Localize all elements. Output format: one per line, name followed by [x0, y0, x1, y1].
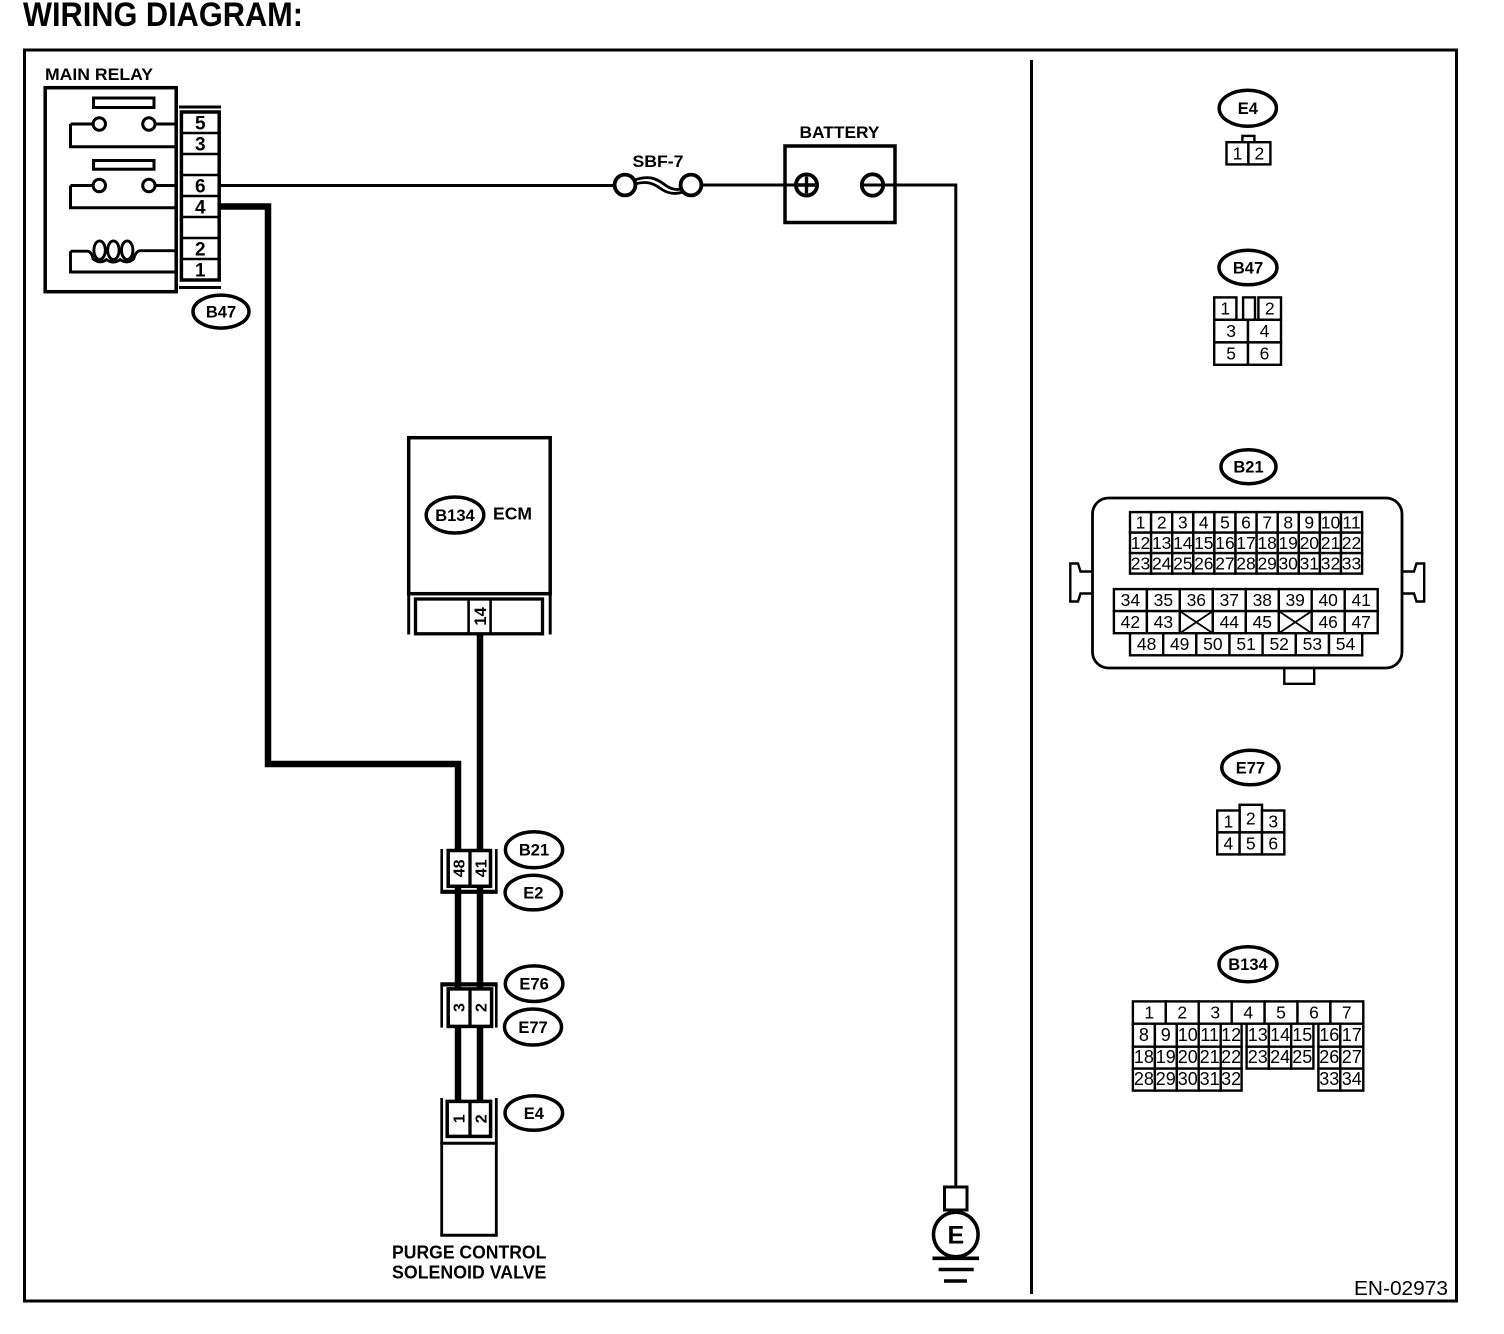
svg-text:22: 22 — [1342, 533, 1361, 553]
connector view B134 pin 31 — [1199, 1069, 1221, 1091]
connector view B21 pin 49 — [1163, 633, 1196, 655]
connector view B134 pin 11 — [1199, 1024, 1221, 1047]
connector view B21 blocked cavity — [1180, 611, 1213, 633]
svg-text:14: 14 — [1173, 533, 1193, 553]
svg-text:17: 17 — [1342, 1025, 1362, 1045]
connector view B21 pin 33 — [1341, 553, 1362, 574]
connector view B21 pin 42 — [1114, 611, 1147, 633]
connector E4 pin box (1 | 2) — [447, 1101, 490, 1136]
wire E76/E77 to E4 pin 2 — [477, 1026, 484, 1105]
ground connector square — [945, 1187, 968, 1210]
connector view B134 pin 26 — [1318, 1047, 1340, 1069]
svg-text:26: 26 — [1194, 553, 1213, 573]
svg-text:1: 1 — [1136, 512, 1146, 532]
connector label ellipse E4 — [505, 1096, 563, 1131]
connector view B21 pin 28 — [1236, 553, 1257, 574]
svg-text:2: 2 — [1265, 299, 1275, 319]
ECM pin row box — [416, 599, 543, 634]
svg-text:14: 14 — [1270, 1025, 1290, 1045]
ECM side extensions — [407, 595, 410, 635]
wire relay pin 6 to fuse SBF-7 — [220, 184, 614, 187]
connector view B134 pin 14 — [1269, 1024, 1291, 1047]
connector view B21 pin 44 — [1213, 611, 1246, 633]
svg-text:19: 19 — [1278, 533, 1297, 553]
svg-text:B134: B134 — [1228, 956, 1268, 974]
svg-text:38: 38 — [1253, 590, 1272, 610]
svg-text:43: 43 — [1154, 612, 1173, 632]
relay coil (pins 2/1) — [71, 241, 177, 272]
connector view B21 pin 51 — [1230, 633, 1263, 655]
connector view E77 pin 1 — [1217, 811, 1239, 833]
connector view B21 label ellipse — [1221, 450, 1276, 484]
svg-text:41: 41 — [473, 859, 490, 877]
connector view B47 pin 5 — [1214, 342, 1248, 364]
connector view E77 pin 2 raised cell — [1240, 805, 1262, 833]
connector view B134 pin 27 — [1340, 1047, 1363, 1069]
svg-text:20: 20 — [1178, 1047, 1198, 1067]
wire fuse to battery positive — [702, 184, 796, 187]
svg-text:33: 33 — [1342, 553, 1361, 573]
svg-text:48: 48 — [451, 859, 468, 877]
connector view B21 pin 43 — [1147, 611, 1180, 633]
connector view B21 pin 5 — [1214, 512, 1235, 533]
svg-text:E77: E77 — [518, 1019, 547, 1037]
svg-text:26: 26 — [1319, 1047, 1339, 1067]
connector view B134 pin 32 — [1221, 1069, 1242, 1091]
svg-text:5: 5 — [1276, 1003, 1286, 1023]
connector view B21 pin 47 — [1345, 611, 1378, 633]
svg-text:33: 33 — [1319, 1069, 1339, 1089]
svg-text:4: 4 — [195, 197, 206, 218]
svg-text:3: 3 — [451, 1003, 468, 1012]
svg-text:34: 34 — [1342, 1069, 1362, 1089]
connector view B21 housing — [1093, 498, 1403, 668]
connector view E77 pin 3 — [1262, 811, 1284, 833]
connector view B134 pin 24 — [1269, 1047, 1291, 1069]
connector view B21 left ear — [1070, 564, 1092, 602]
wire B21/E2 to E76/E77 pin 3 — [455, 888, 462, 990]
svg-text:45: 45 — [1253, 612, 1272, 632]
connector view B134 pin 17 — [1340, 1024, 1363, 1047]
svg-text:24: 24 — [1270, 1047, 1290, 1067]
connector view B21 pin 38 — [1246, 589, 1279, 611]
connector view B21 pin 10 — [1320, 512, 1341, 533]
connector view B134 pin 18 — [1133, 1047, 1155, 1069]
thick wire relay pin 4 to connector B21 pin 48 — [220, 207, 459, 856]
connector view B134 pin 12 — [1221, 1024, 1242, 1047]
connector view B134 pin 21 — [1199, 1047, 1221, 1069]
connector view B21 pin 14 — [1172, 533, 1193, 554]
svg-text:3: 3 — [195, 134, 206, 155]
svg-text:2: 2 — [195, 239, 206, 260]
connector view B21 pin 36 — [1180, 589, 1213, 611]
svg-text:8: 8 — [1283, 512, 1293, 532]
svg-text:2: 2 — [1246, 809, 1256, 829]
connector view B134 pin 10 — [1177, 1024, 1199, 1047]
svg-text:E: E — [947, 1222, 964, 1250]
connector view B47 pin 6 — [1248, 342, 1281, 364]
svg-text:37: 37 — [1220, 590, 1239, 610]
connector label ellipse E76 — [505, 966, 563, 1002]
fuse SBF-7 wavy element — [633, 178, 684, 194]
battery positive terminal — [796, 174, 817, 195]
svg-text:16: 16 — [1215, 533, 1234, 553]
connector view B21 pin 7 — [1257, 512, 1278, 533]
connector view B134 pin 13 — [1247, 1024, 1269, 1047]
connector view B134 pin 9 — [1155, 1024, 1177, 1047]
svg-text:42: 42 — [1121, 612, 1140, 632]
thick wire ECM pin 14 to connector B21 pin 41 — [477, 633, 484, 855]
svg-text:PURGE CONTROL: PURGE CONTROL — [392, 1243, 546, 1263]
connector view B21 pin 24 — [1151, 553, 1172, 574]
svg-text:31: 31 — [1200, 1069, 1220, 1089]
svg-text:WIRING DIAGRAM:: WIRING DIAGRAM: — [23, 0, 303, 34]
wire E76/E77 to E4 pin 1 — [455, 1026, 462, 1105]
svg-text:MAIN RELAY: MAIN RELAY — [45, 65, 154, 84]
connector view E77 pin 4 — [1217, 832, 1239, 854]
wire B21/E2 to E76/E77 pin 2 — [477, 888, 484, 990]
connector view B21 pin 4 — [1193, 512, 1214, 533]
wire battery negative to ground E — [861, 185, 956, 1187]
connector view B21 blocked cavity — [1279, 611, 1312, 633]
connector view B134 pin 23 — [1247, 1047, 1269, 1069]
svg-text:17: 17 — [1236, 533, 1255, 553]
svg-text:39: 39 — [1285, 590, 1304, 610]
battery box — [785, 146, 895, 223]
connector view B21 pin 34 — [1114, 589, 1147, 611]
connector B47 shell bottom line — [179, 286, 221, 289]
svg-text:40: 40 — [1318, 590, 1338, 610]
battery negative terminal — [862, 174, 883, 195]
connector B47 pin box — [181, 112, 219, 280]
connector B47 pin cell dividers — [181, 133, 219, 259]
connector view B21 pin 46 — [1312, 611, 1345, 633]
connector view B134 pin 8 — [1133, 1024, 1155, 1047]
connector E76/E77 bracket — [440, 983, 497, 1028]
svg-text:12: 12 — [1131, 533, 1150, 553]
svg-text:13: 13 — [1248, 1025, 1268, 1045]
svg-text:23: 23 — [1248, 1047, 1268, 1067]
svg-text:15: 15 — [1194, 533, 1213, 553]
connector view B21 pin 6 — [1236, 512, 1257, 533]
connector label ellipse E77 — [505, 1009, 562, 1045]
svg-text:27: 27 — [1215, 553, 1234, 573]
svg-text:10: 10 — [1321, 512, 1341, 532]
svg-text:3: 3 — [1268, 812, 1278, 832]
svg-text:3: 3 — [1178, 512, 1188, 532]
svg-text:1: 1 — [1144, 1003, 1154, 1023]
svg-text:21: 21 — [1321, 533, 1340, 553]
svg-text:18: 18 — [1257, 533, 1276, 553]
connector view B21 pin 30 — [1278, 553, 1299, 574]
connector view B21 pin 23 — [1130, 553, 1151, 574]
svg-text:B21: B21 — [1233, 459, 1263, 477]
connector view E4 pin 2 — [1248, 142, 1270, 164]
svg-text:25: 25 — [1173, 553, 1192, 573]
connector view B134 label ellipse — [1219, 947, 1277, 982]
svg-text:12: 12 — [1221, 1025, 1241, 1045]
svg-text:20: 20 — [1300, 533, 1320, 553]
svg-text:E76: E76 — [519, 976, 548, 994]
svg-text:51: 51 — [1236, 634, 1255, 654]
svg-text:6: 6 — [1309, 1003, 1319, 1023]
connector view B21 pin 2 — [1151, 512, 1172, 533]
connector B21/E2 bracket — [440, 849, 497, 893]
svg-text:13: 13 — [1152, 533, 1171, 553]
svg-text:18: 18 — [1134, 1047, 1154, 1067]
connector E4 side walls — [440, 1098, 443, 1236]
svg-text:19: 19 — [1156, 1047, 1176, 1067]
connector view B21 pin 50 — [1196, 633, 1229, 655]
connector view B21 pin 20 — [1299, 533, 1320, 554]
svg-text:4: 4 — [1260, 321, 1270, 341]
connector view B21 pin 21 — [1320, 533, 1341, 554]
connector view E4 tab — [1242, 136, 1254, 142]
svg-text:48: 48 — [1137, 634, 1156, 654]
connector view B21 pin 53 — [1296, 633, 1329, 655]
connector view B134 pin 20 — [1177, 1047, 1199, 1069]
connector view B134 pin 19 — [1155, 1047, 1177, 1069]
svg-text:ECM: ECM — [493, 503, 532, 523]
connector view B47 pin 4 — [1248, 320, 1281, 343]
svg-text:11: 11 — [1342, 512, 1360, 532]
main relay box — [45, 88, 176, 292]
svg-text:30: 30 — [1178, 1069, 1198, 1089]
connector B47 pin numbers 5 3 6 4 2 1 — [195, 113, 206, 281]
connector view B21 pin 18 — [1257, 533, 1278, 554]
svg-text:2: 2 — [473, 1003, 490, 1012]
svg-text:4: 4 — [1224, 834, 1234, 854]
svg-text:SOLENOID VALVE: SOLENOID VALVE — [392, 1263, 546, 1283]
svg-text:28: 28 — [1134, 1069, 1154, 1089]
svg-text:8: 8 — [1139, 1025, 1149, 1045]
separator line between schematic and connector views — [1030, 60, 1033, 1294]
connector view B21 pin 26 — [1193, 553, 1214, 574]
svg-text:1: 1 — [1233, 143, 1243, 163]
svg-text:32: 32 — [1221, 1069, 1241, 1089]
svg-text:E4: E4 — [524, 1105, 545, 1123]
connector view B21 pin 9 — [1299, 512, 1320, 533]
svg-text:31: 31 — [1300, 553, 1319, 573]
ground point E circle — [934, 1212, 979, 1257]
connector view B134 pin 6 — [1298, 1001, 1331, 1023]
svg-text:52: 52 — [1269, 634, 1288, 654]
svg-text:32: 32 — [1321, 553, 1340, 573]
connector view B21 pin 40 — [1312, 589, 1345, 611]
connector view B47 pin 3 — [1214, 320, 1248, 343]
svg-text:2: 2 — [1177, 1003, 1187, 1023]
connector view B134 pin 4 — [1232, 1001, 1265, 1023]
svg-text:41: 41 — [1351, 590, 1370, 610]
connector view B134 pin 29 — [1155, 1069, 1177, 1091]
connector view B21 pin 31 — [1299, 553, 1320, 574]
connector view B21 pin 35 — [1147, 589, 1180, 611]
connector view B134 pin 25 — [1291, 1047, 1313, 1069]
svg-text:2: 2 — [1255, 143, 1265, 163]
svg-text:15: 15 — [1292, 1025, 1312, 1045]
connector view B134 pin 3 — [1199, 1001, 1232, 1023]
connector view B47 label ellipse — [1219, 250, 1277, 285]
ECM pin row dividers — [467, 599, 470, 634]
svg-text:3: 3 — [1226, 321, 1236, 341]
connector view B134 pin 22 — [1221, 1047, 1242, 1069]
svg-text:29: 29 — [1156, 1069, 1176, 1089]
connector view B21 pin 52 — [1263, 633, 1296, 655]
connector view B134 pin 33 — [1318, 1069, 1340, 1091]
connector view B47 pin 2 — [1258, 297, 1281, 319]
connector view B21 pin 32 — [1320, 553, 1341, 574]
connector E76/E77 pin box (3 | 2) — [448, 989, 491, 1027]
connector view B21 pin 3 — [1172, 512, 1193, 533]
svg-text:6: 6 — [1268, 834, 1278, 854]
svg-text:E2: E2 — [523, 885, 543, 903]
svg-text:E77: E77 — [1236, 759, 1265, 777]
svg-text:6: 6 — [1241, 512, 1251, 532]
svg-text:1: 1 — [1224, 812, 1234, 832]
connector view B134 pin 2 — [1166, 1001, 1199, 1023]
svg-text:44: 44 — [1220, 612, 1240, 632]
connector view B21 pin 8 — [1278, 512, 1299, 533]
svg-text:34: 34 — [1121, 590, 1141, 610]
svg-text:5: 5 — [1220, 512, 1230, 532]
connector view B134 pin 1 — [1133, 1001, 1166, 1023]
connector view B21 pin 13 — [1151, 533, 1172, 554]
connector view E77 pin 5 — [1240, 832, 1262, 854]
svg-text:10: 10 — [1178, 1025, 1198, 1045]
svg-text:29: 29 — [1257, 553, 1276, 573]
connector view B21 pin 27 — [1214, 553, 1235, 574]
connector view B134 pin 30 — [1177, 1069, 1199, 1091]
svg-text:B21: B21 — [519, 842, 549, 860]
svg-text:B47: B47 — [206, 304, 236, 322]
svg-text:2: 2 — [473, 1114, 490, 1123]
purge control solenoid valve box — [440, 1142, 497, 1145]
svg-text:1: 1 — [451, 1114, 468, 1123]
svg-text:22: 22 — [1221, 1047, 1241, 1067]
connector B21/E2 pin box (48 | 41) — [448, 851, 490, 887]
connector view B134 pin 5 — [1265, 1001, 1298, 1023]
svg-text:28: 28 — [1236, 553, 1255, 573]
connector view B21 pin 11 — [1341, 512, 1362, 533]
svg-text:7: 7 — [1342, 1003, 1352, 1023]
svg-text:B134: B134 — [435, 507, 475, 525]
connector label ellipse B47 — [193, 295, 249, 328]
svg-text:7: 7 — [1262, 512, 1272, 532]
ECM connector label ellipse B134 — [426, 497, 484, 533]
relay contact bar 1 — [94, 98, 155, 108]
connector view B21 pin 22 — [1341, 533, 1362, 554]
svg-text:6: 6 — [1260, 344, 1270, 364]
connector view B21 pin 37 — [1213, 589, 1246, 611]
connector view B134 pin 7 — [1330, 1001, 1363, 1023]
svg-text:E4: E4 — [1238, 100, 1259, 118]
svg-text:B47: B47 — [1233, 259, 1263, 277]
svg-text:23: 23 — [1131, 553, 1150, 573]
connector label ellipse E2 — [505, 875, 561, 910]
connector view B47 pin 1 — [1214, 297, 1236, 319]
connector view B21 pin 15 — [1193, 533, 1214, 554]
svg-text:16: 16 — [1319, 1025, 1339, 1045]
svg-text:5: 5 — [1246, 834, 1256, 854]
svg-text:9: 9 — [1161, 1025, 1171, 1045]
connector view B21 pin 12 — [1130, 533, 1151, 554]
connector view B134 pin 28 — [1133, 1069, 1155, 1091]
svg-text:SBF-7: SBF-7 — [633, 153, 684, 171]
connector view B21 pin 45 — [1246, 611, 1279, 633]
svg-text:54: 54 — [1336, 634, 1356, 654]
connector view B134 pin 15 — [1291, 1024, 1313, 1047]
svg-text:30: 30 — [1278, 553, 1298, 573]
svg-text:9: 9 — [1304, 512, 1314, 532]
svg-text:2: 2 — [1157, 512, 1167, 532]
connector view E77 label ellipse — [1222, 750, 1279, 785]
connector view B134 pin 16 — [1318, 1024, 1340, 1047]
connector view B21 pin 19 — [1278, 533, 1299, 554]
relay switch 2 contacts (to pin 6) — [71, 179, 177, 208]
svg-text:24: 24 — [1152, 553, 1172, 573]
svg-text:BATTERY: BATTERY — [800, 124, 880, 142]
connector view E77 pin 6 — [1262, 832, 1284, 854]
svg-text:25: 25 — [1292, 1047, 1312, 1067]
ground symbol bars — [933, 1258, 980, 1281]
svg-text:36: 36 — [1187, 590, 1206, 610]
svg-text:6: 6 — [195, 176, 206, 197]
svg-text:53: 53 — [1303, 634, 1322, 654]
connector view B21 pin 41 — [1345, 589, 1378, 611]
fuse SBF-7 left terminal — [615, 175, 636, 196]
svg-text:4: 4 — [1243, 1003, 1253, 1023]
svg-text:3: 3 — [1210, 1003, 1220, 1023]
connector view B21 pin 1 — [1130, 512, 1151, 533]
svg-text:35: 35 — [1154, 590, 1173, 610]
relay switch 1 contacts (to pin 5) — [71, 118, 177, 147]
svg-text:11: 11 — [1200, 1025, 1219, 1045]
connector view E4 pin 1 — [1227, 142, 1249, 164]
connector view B21 pin 17 — [1236, 533, 1257, 554]
svg-text:5: 5 — [1226, 344, 1236, 364]
svg-text:1: 1 — [1220, 299, 1230, 319]
connector label ellipse B21 — [505, 832, 562, 868]
connector view B21 pin 29 — [1257, 553, 1278, 574]
connector view B21 pin 39 — [1279, 589, 1312, 611]
svg-text:5: 5 — [195, 113, 206, 134]
relay contact bar 2 — [94, 161, 155, 170]
svg-text:14: 14 — [472, 606, 490, 625]
svg-text:1: 1 — [195, 260, 206, 281]
connector view B21 right ear — [1403, 564, 1425, 602]
fuse SBF-7 right terminal — [681, 175, 702, 196]
svg-text:27: 27 — [1342, 1047, 1362, 1067]
svg-text:4: 4 — [1199, 512, 1209, 532]
connector view E4 label ellipse — [1219, 90, 1276, 126]
connector view B21 pin 54 — [1329, 633, 1362, 655]
svg-text:46: 46 — [1318, 612, 1337, 632]
connector view B21 pin 16 — [1214, 533, 1235, 554]
ECM box — [409, 438, 551, 594]
connector B47 shell top line — [179, 106, 221, 109]
svg-text:47: 47 — [1351, 612, 1370, 632]
svg-text:50: 50 — [1203, 634, 1223, 654]
connector view B21 bottom tab — [1284, 669, 1314, 684]
connector view B21 pin 48 — [1130, 633, 1163, 655]
svg-text:21: 21 — [1200, 1047, 1220, 1067]
connector view B21 pin 25 — [1172, 553, 1193, 574]
svg-text:49: 49 — [1170, 634, 1189, 654]
connector view B47 keyway cell — [1243, 297, 1255, 319]
connector view B134 pin 34 — [1340, 1069, 1363, 1091]
svg-text:EN-02973: EN-02973 — [1354, 1277, 1448, 1300]
